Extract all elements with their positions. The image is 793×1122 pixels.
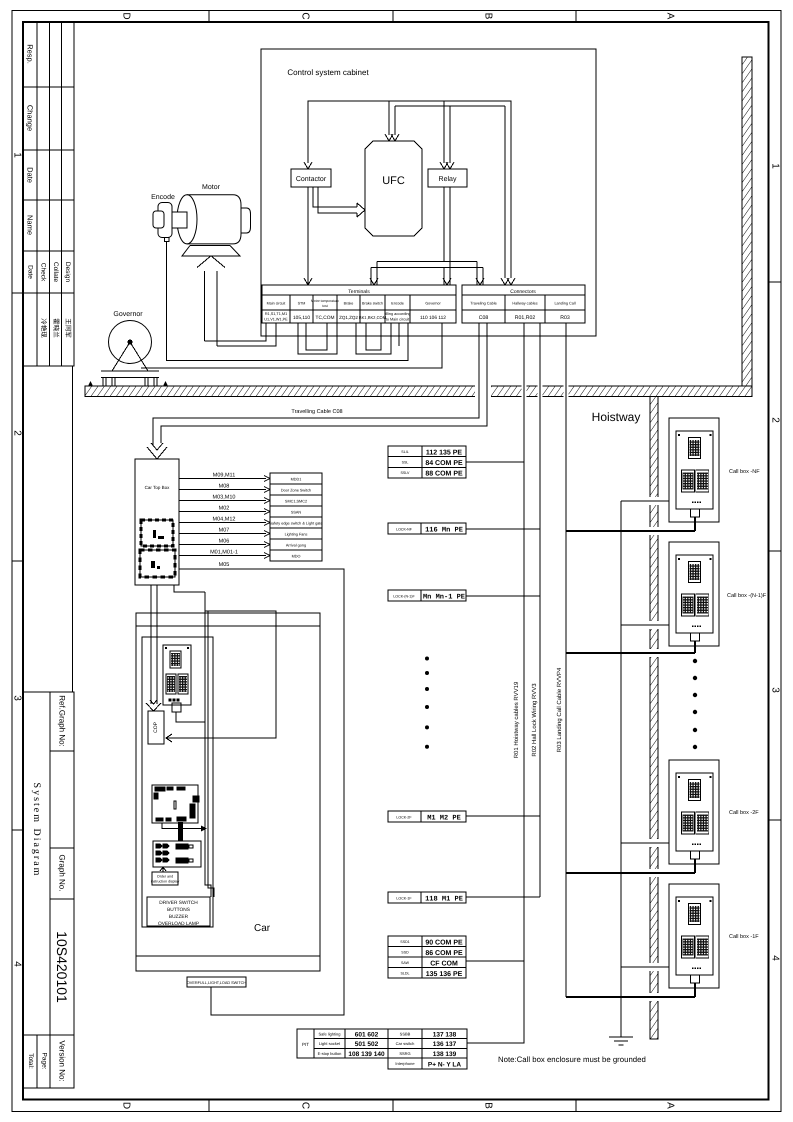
- svg-text:DRIVER SWITCH: DRIVER SWITCH: [159, 900, 198, 906]
- wire relay cable to terminals: [370, 187, 484, 285]
- svg-text:SSD: SSD: [401, 951, 409, 955]
- terminals table: [262, 285, 456, 323]
- svg-text:ZQ1,ZQ2: ZQ1,ZQ2: [339, 315, 358, 320]
- svg-text:116 Mn PE: 116 Mn PE: [425, 527, 463, 535]
- svg-text:C: C: [300, 1102, 311, 1109]
- call box -NF: [669, 418, 719, 522]
- svg-text:501 502: 501 502: [355, 1041, 379, 1048]
- board connector bar: [178, 822, 183, 841]
- svg-text:B: B: [483, 1102, 494, 1109]
- svg-text:LOCK-(N-1)F: LOCK-(N-1)F: [393, 595, 415, 599]
- svg-text:SSRG: SSRG: [399, 1051, 410, 1056]
- svg-text:SAW: SAW: [401, 961, 410, 965]
- svg-text:137 138: 137 138: [433, 1032, 457, 1039]
- svg-text:4: 4: [770, 955, 781, 961]
- connectors table: [462, 285, 585, 323]
- ellipsis dots mid column: [425, 657, 429, 749]
- wire R02: [539, 323, 541, 897]
- svg-text:Travelling Cable C08: Travelling Cable C08: [291, 409, 342, 415]
- svg-text:Note:Call box enclosure must b: Note:Call box enclosure must be grounded: [498, 1055, 646, 1064]
- svg-text:10S420101: 10S420101: [54, 931, 70, 1003]
- motor power cable hollow arrow: [197, 256, 225, 346]
- svg-text:Encode: Encode: [151, 193, 175, 201]
- svg-text:M1 M2 PE: M1 M2 PE: [427, 815, 461, 823]
- arrow order box to PCB2: [160, 867, 166, 872]
- svg-text:M02: M02: [219, 506, 230, 512]
- svg-text:Resp.: Resp.: [26, 44, 35, 64]
- svg-text:Order and: Order and: [157, 875, 173, 879]
- svg-text:M03,M10: M03,M10: [213, 495, 236, 501]
- wire top bus B: [395, 106, 505, 278]
- car top box: [135, 459, 179, 585]
- svg-text:136 137: 136 137: [433, 1041, 457, 1048]
- svg-text:112 135 PE: 112 135 PE: [426, 450, 463, 457]
- zone letters bottom: [121, 1102, 676, 1109]
- wire SAW row to R01: [466, 960, 524, 962]
- svg-text:SSBB: SSBB: [400, 1032, 411, 1037]
- svg-text:filling according: filling according: [384, 312, 410, 316]
- svg-text:SLIL: SLIL: [401, 450, 408, 454]
- svg-text:U1,V1,W1,PE: U1,V1,W1,PE: [264, 318, 288, 322]
- svg-text:LOCK-2F: LOCK-2F: [396, 816, 412, 820]
- wire PCB1 to right arrow: [162, 823, 201, 829]
- title block top (revision table): [23, 22, 74, 1100]
- svg-text:2: 2: [12, 430, 23, 436]
- svg-text:SLDL: SLDL: [401, 972, 410, 976]
- svg-text:110 106 112: 110 106 112: [420, 315, 446, 321]
- call box -2F: [669, 760, 719, 864]
- wire R01: [467, 323, 524, 1043]
- svg-text:1: 1: [12, 152, 23, 158]
- svg-text:86 COM PE: 86 COM PE: [425, 950, 463, 957]
- svg-text:Ref.Graph No:: Ref.Graph No:: [58, 695, 67, 747]
- svg-text:Date: Date: [26, 167, 35, 183]
- svg-text:Name: Name: [26, 215, 35, 235]
- call box drop wires: [694, 517, 696, 997]
- svg-text:M08: M08: [219, 484, 230, 490]
- COP box: [148, 711, 164, 744]
- svg-text:Governor: Governor: [113, 311, 143, 318]
- wire LOCK-1F to R02: [466, 896, 540, 898]
- wire panel connector: [176, 712, 205, 722]
- svg-text:Call box -(N-1)F: Call box -(N-1)F: [727, 593, 767, 599]
- svg-text:138 139: 138 139: [433, 1051, 457, 1058]
- svg-text:4: 4: [12, 961, 23, 967]
- svg-text:118 M1 PE: 118 M1 PE: [425, 896, 463, 904]
- svg-text:COP: COP: [153, 721, 159, 733]
- svg-text:M05: M05: [219, 562, 230, 568]
- svg-text:M07: M07: [219, 528, 230, 534]
- svg-text:Car Top Box: Car Top Box: [145, 485, 170, 490]
- ellipsis dots hoistway: [693, 659, 697, 749]
- order-instruction display box: [152, 872, 178, 885]
- stub wires under terminal table: [205, 323, 400, 354]
- svg-text:OVERLOAD LAMP: OVERLOAD LAMP: [158, 921, 199, 927]
- svg-text:84 COM PE: 84 COM PE: [425, 460, 463, 467]
- svg-text:Page:: Page:: [41, 1053, 48, 1070]
- svg-text:Arrival gong: Arrival gong: [286, 544, 306, 548]
- svg-text:Total:: Total:: [27, 1053, 34, 1069]
- driver switch text box: [147, 897, 210, 926]
- svg-text:SMC1,SMC2: SMC1,SMC2: [285, 500, 307, 504]
- svg-text:R03 Landing Call Cable RVVP: R03 Landing Call Cable RVVP4: [556, 667, 563, 752]
- svg-text:Change: Change: [26, 105, 35, 131]
- svg-text:Call box -1F: Call box -1F: [729, 934, 759, 940]
- svg-text:SSD1: SSD1: [400, 940, 409, 944]
- control system cabinet: [261, 49, 596, 336]
- svg-text:Encode: Encode: [391, 302, 404, 306]
- svg-text:PIT: PIT: [302, 1042, 309, 1047]
- svg-text:MDD1: MDD1: [291, 478, 302, 482]
- svg-text:C08: C08: [479, 315, 489, 321]
- svg-text:BK1,BK2,COM: BK1,BK2,COM: [359, 315, 387, 320]
- mid terminal group SSD1/SSD/SAW/SLDL: [388, 936, 466, 978]
- ground bus wire: [620, 501, 622, 1037]
- svg-text:105,110: 105,110: [293, 315, 310, 321]
- wall gaps where wires cross: [475, 384, 660, 1001]
- svg-text:C: C: [300, 12, 311, 19]
- svg-text:R01 Hoistway cables RVV19: R01 Hoistway cables RVV19: [513, 681, 520, 758]
- car connection table: [388, 1029, 467, 1069]
- M-wire arrows car top box to device list: [179, 479, 266, 556]
- svg-text:Light socket: Light socket: [319, 1041, 341, 1046]
- svg-text:STM: STM: [298, 302, 306, 306]
- svg-text:BUTTONS: BUTTONS: [167, 907, 190, 913]
- ground taps to call boxes: [621, 501, 669, 967]
- wire contactor to UFC (cable with hollow arrow): [313, 187, 365, 217]
- svg-text:冷艳现: 冷艳现: [40, 318, 48, 338]
- governor wire: [141, 323, 442, 368]
- pit table: [297, 1029, 388, 1058]
- machine room floor (hatched): [85, 386, 752, 397]
- svg-text:90 COM PE: 90 COM PE: [425, 940, 463, 947]
- wire top bus A: [308, 101, 511, 278]
- svg-text:3: 3: [12, 695, 23, 701]
- svg-text:M04,M12: M04,M12: [213, 517, 236, 523]
- svg-text:R03: R03: [560, 315, 570, 321]
- svg-text:A: A: [665, 13, 676, 20]
- svg-text:Motor temperature: Motor temperature: [311, 299, 339, 303]
- svg-text:BUZZER: BUZZER: [169, 914, 189, 920]
- svg-text:E-stop button: E-stop button: [318, 1051, 342, 1056]
- title block bottom (name block): [23, 692, 74, 1088]
- svg-text:Version No:: Version No:: [58, 1040, 67, 1081]
- encoder wire: [167, 241, 409, 361]
- svg-text:A: A: [665, 1102, 676, 1109]
- svg-text:D: D: [121, 1102, 132, 1109]
- svg-text:System Diagram: System Diagram: [31, 783, 42, 878]
- svg-text:test: test: [322, 304, 328, 308]
- svg-text:D: D: [121, 12, 132, 19]
- svg-text:R02 Hall Lock Wiring RVV3: R02 Hall Lock Wiring RVV3: [531, 683, 538, 757]
- svg-text:R01,R02: R01,R02: [515, 315, 536, 321]
- zone letters top: [121, 12, 676, 19]
- svg-text:Car switch: Car switch: [396, 1041, 415, 1046]
- wire LOCK-2F to R02: [466, 815, 540, 817]
- arrowheads into components: [304, 134, 515, 285]
- wire R03: [565, 323, 567, 997]
- svg-text:王同军: 王同军: [64, 318, 72, 338]
- svg-text:3: 3: [770, 687, 781, 693]
- svg-text:601 602: 601 602: [355, 1032, 379, 1039]
- svg-text:Connectors: Connectors: [510, 289, 536, 295]
- travelling cable C08: [147, 323, 487, 459]
- svg-text:108 139 140: 108 139 140: [348, 1051, 385, 1058]
- svg-text:SSL: SSL: [402, 461, 409, 465]
- terminal LOCK-(N-1)F: [388, 590, 466, 601]
- svg-text:Design: Design: [64, 262, 71, 283]
- svg-text:Main circuit: Main circuit: [267, 302, 286, 306]
- svg-text:2: 2: [770, 417, 781, 423]
- R03 feed wires to call boxes: [566, 531, 695, 997]
- svg-text:Safe lighting: Safe lighting: [318, 1032, 340, 1037]
- svg-text:LOCK-NF: LOCK-NF: [396, 528, 413, 532]
- COP panel enclosure: [142, 637, 213, 927]
- wire group1 to R01: [466, 461, 524, 463]
- svg-text:Terminals: Terminals: [348, 289, 370, 295]
- wire loop car top box to COP right: [166, 585, 276, 742]
- wire LOCK-NF to R02: [466, 528, 540, 530]
- svg-text:Relay: Relay: [439, 175, 457, 183]
- car top box PCB 1: [141, 520, 173, 546]
- wire M05: [179, 569, 344, 1015]
- svg-text:Call box -2F: Call box -2F: [729, 810, 759, 816]
- wire LOCK-(N-1)F to R02: [466, 595, 540, 597]
- COP PCB1: [152, 785, 199, 823]
- svg-text:Car: Car: [254, 923, 271, 934]
- svg-text:MDO: MDO: [292, 555, 301, 559]
- svg-text:SSAN: SSAN: [291, 511, 302, 515]
- svg-text:M01,M01-1: M01,M01-1: [210, 550, 238, 556]
- svg-text:Brake switch: Brake switch: [362, 302, 383, 306]
- COP PCB2: [153, 841, 201, 867]
- svg-text:P+ N- Y LA: P+ N- Y LA: [428, 1062, 461, 1069]
- terminal LOCK-NF: [388, 523, 466, 534]
- call box -(N-1)F: [669, 542, 719, 646]
- svg-text:LOCK-1F: LOCK-1F: [396, 897, 412, 901]
- op-unit UFC: [365, 141, 422, 236]
- svg-text:Check: Check: [40, 263, 47, 282]
- zone numbers right: [770, 163, 781, 961]
- svg-text:SSLV: SSLV: [401, 471, 411, 475]
- svg-text:Brake: Brake: [344, 302, 354, 306]
- svg-text:Landing Call: Landing Call: [554, 302, 575, 306]
- svg-text:Hallway cables: Hallway cables: [512, 302, 537, 306]
- svg-text:Safety edge switch & Light gat: Safety edge switch & Light gate: [269, 522, 322, 526]
- svg-text:Door Zone Switch: Door Zone Switch: [281, 489, 311, 493]
- svg-text:M06: M06: [219, 539, 230, 545]
- svg-text:Call box -NF: Call box -NF: [729, 469, 760, 475]
- terminal LOCK-2F: [388, 811, 466, 822]
- wire into COP (from car top box): [146, 585, 161, 711]
- svg-text:UFC: UFC: [382, 175, 405, 187]
- svg-text:88 COM PE: 88 COM PE: [425, 471, 463, 478]
- svg-text:to Main circuit: to Main circuit: [386, 318, 410, 322]
- relay KA: [428, 169, 467, 187]
- svg-text:M09,M11: M09,M11: [213, 473, 236, 479]
- overload switch box: [187, 977, 246, 987]
- svg-text:TC,COM: TC,COM: [316, 315, 335, 321]
- ground symbol: [609, 1037, 633, 1045]
- wire down to driver switch box: [205, 592, 214, 897]
- hoistway front wall (hatched): [650, 397, 658, 1040]
- svg-text:Graph No.: Graph No.: [58, 855, 67, 892]
- contactor K1: [291, 169, 331, 187]
- car top box PCB 2: [140, 550, 175, 577]
- zone numbers left: [12, 152, 23, 967]
- svg-text:Traveling Cable: Traveling Cable: [470, 302, 496, 306]
- svg-text:Collate: Collate: [52, 262, 59, 283]
- svg-text:1: 1: [770, 163, 781, 169]
- wire contactor to terminal: [304, 187, 312, 285]
- svg-text:Interphone: Interphone: [395, 1061, 415, 1066]
- svg-text:CF COM: CF COM: [430, 961, 458, 968]
- svg-text:R1,S1,T1,M1: R1,S1,T1,M1: [265, 312, 287, 316]
- machine room right wall (hatched): [742, 57, 752, 386]
- car call panel device: [163, 645, 191, 712]
- svg-text:Motor: Motor: [202, 184, 221, 191]
- svg-text:OVERFULL,LIGHT,LOAD SWITCH: OVERFULL,LIGHT,LOAD SWITCH: [187, 981, 247, 985]
- svg-text:Hoistway: Hoistway: [592, 410, 641, 424]
- svg-text:B: B: [483, 13, 494, 20]
- svg-text:Governor: Governor: [425, 302, 441, 306]
- svg-text:霍晓兰: 霍晓兰: [52, 318, 60, 338]
- svg-text:Mn Mn-1 PE: Mn Mn-1 PE: [423, 594, 465, 602]
- svg-text:Contactor: Contactor: [296, 176, 327, 183]
- mid terminal group SLIL/SSL/SSLV: [388, 446, 466, 478]
- car body: [136, 613, 320, 971]
- svg-text:Lighting Fans: Lighting Fans: [285, 533, 308, 537]
- terminal LOCK-1F: [388, 892, 466, 903]
- svg-text:135 136 PE: 135 136 PE: [426, 971, 463, 978]
- device list boxes: [270, 473, 322, 561]
- svg-text:instruction display: instruction display: [151, 880, 180, 884]
- call box -1F: [669, 884, 719, 988]
- svg-text:Control system cabinet: Control system cabinet: [287, 68, 369, 77]
- svg-text:Date: Date: [27, 265, 34, 279]
